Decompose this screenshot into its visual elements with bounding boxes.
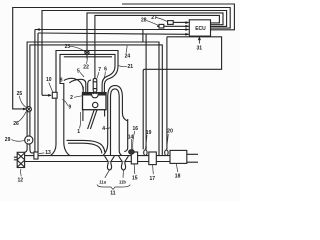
box 10 throttle actuator	[52, 92, 57, 98]
wire ECU bottom loop to sensor 19	[143, 37, 221, 150]
wire net 30 outermost loop to ECU	[122, 4, 234, 30]
cylinder head dark band right	[98, 93, 105, 96]
downpipe 11a flare edges	[105, 156, 115, 161]
arrowheads	[23, 21, 201, 110]
svg-text:31: 31	[197, 45, 203, 51]
arrow 31 stem	[198, 39, 200, 43]
downpipe 11b flare mask	[119, 156, 129, 161]
intake runner left outer wall	[69, 79, 86, 92]
air cleaner 12 body	[17, 152, 24, 167]
downpipe 11b flare edges	[119, 156, 129, 161]
leader 20	[167, 134, 169, 150]
wire/pipe B lower line to ECU	[38, 33, 189, 34]
svg-text:10: 10	[46, 77, 52, 83]
svg-text:8: 8	[60, 77, 63, 83]
svg-text:25: 25	[17, 91, 23, 97]
catalyst box 15	[131, 152, 137, 164]
pipe B left riser line	[34, 30, 36, 153]
pipe B right riser line	[37, 33, 39, 152]
wire loop W2 ECU to throttle box 10	[42, 11, 227, 96]
downpipe 11a stem	[108, 162, 111, 164]
wire arm into box 10	[42, 94, 51, 96]
intake manifold inner top line	[64, 56, 112, 58]
leader 25	[19, 96, 26, 108]
leader 1	[80, 112, 81, 129]
injector 7 body	[93, 79, 97, 95]
leader 28	[147, 21, 159, 26]
sensor square 28	[159, 24, 164, 28]
downpipe 11a label tick	[105, 170, 109, 177]
leader 6	[104, 72, 105, 79]
svg-text:2: 2	[70, 95, 73, 101]
leader 17	[152, 165, 155, 174]
svg-text:1: 1	[77, 129, 80, 135]
pipe A inner line	[30, 45, 162, 156]
pump 29 circle	[25, 136, 33, 144]
air cleaner element X upper	[17, 153, 24, 160]
sensor square 27	[168, 21, 174, 25]
leader 19	[145, 135, 147, 149]
leader 13 dash	[39, 152, 44, 155]
leader 4	[105, 127, 110, 130]
svg-text:21: 21	[128, 64, 134, 70]
downpipe 11b stem	[122, 162, 125, 164]
wire sensor 28 to ECU	[157, 25, 189, 27]
valve cup 5 in head	[92, 94, 99, 98]
air cleaner element X lower	[17, 160, 24, 167]
cylinder skirt walls	[83, 110, 105, 121]
wire sensor 27 to ECU	[173, 21, 189, 23]
purge valve 22/23 circle-X	[85, 50, 89, 54]
svg-text:ECU: ECU	[195, 26, 206, 32]
pipe B down-tee right (continues to exhaust port 19)	[145, 34, 147, 149]
svg-text:14: 14	[128, 135, 134, 141]
leader 22	[85, 55, 88, 64]
wire branch to sensor 20	[166, 37, 168, 149]
svg-text:12: 12	[18, 178, 24, 184]
arrow into box 10	[48, 94, 52, 97]
pipe A outer line (air pump to exhaust)	[25, 42, 159, 156]
svg-text:20: 20	[167, 129, 173, 135]
arrows into ECU left	[185, 21, 189, 24]
svg-text:29: 29	[5, 137, 11, 143]
intake duct 8 left wall + manifold 21 outer wall	[51, 51, 119, 156]
leader 10	[49, 83, 53, 92]
leader 23	[70, 46, 85, 51]
svg-text:16: 16	[133, 126, 139, 132]
svg-text:11b: 11b	[119, 180, 126, 185]
leader 18	[176, 164, 178, 172]
svg-text:9: 9	[68, 104, 71, 110]
connecting rod lines	[88, 110, 97, 129]
box 13	[34, 152, 38, 159]
leader 14	[130, 139, 132, 149]
intake runner cross arc	[64, 78, 83, 89]
ECU box 31	[189, 20, 210, 36]
leader 12	[20, 169, 23, 176]
svg-text:5: 5	[77, 69, 80, 75]
leader 16	[133, 131, 135, 150]
svg-text:7: 7	[98, 67, 101, 73]
svg-text:27: 27	[151, 15, 157, 21]
arrow left on pipe B upper line	[36, 28, 40, 31]
main duct bottom line	[25, 161, 187, 163]
leader 9	[62, 99, 68, 105]
pipe B down-tee left	[142, 30, 144, 43]
exhaust riser pipe 4 outer	[103, 86, 128, 156]
svg-text:24: 24	[125, 54, 131, 60]
injector 7 collar	[93, 82, 97, 89]
cylinder head thick top edge	[83, 92, 107, 94]
wire loop ECU to purge valve 22	[87, 13, 223, 59]
tailpipe lines	[187, 154, 198, 162]
exhaust riser pipe 4 inner	[111, 89, 123, 156]
cylinder block 1 outline	[83, 93, 107, 110]
injector seat dark right	[96, 92, 97, 94]
svg-text:13: 13	[45, 150, 51, 156]
crankcase sweep outer	[67, 140, 105, 152]
svg-text:19: 19	[146, 130, 152, 136]
intake runner left inner wall	[88, 80, 91, 93]
svg-text:15: 15	[132, 176, 138, 182]
leader 5	[80, 72, 84, 77]
leader 7	[97, 72, 99, 78]
svg-text:28: 28	[141, 17, 147, 23]
wire loop ECU to injector 7 (fuel line)	[95, 15, 219, 78]
leader 29	[11, 140, 24, 142]
svg-text:11: 11	[110, 191, 116, 197]
air cleaner inlet ticks	[14, 157, 17, 160]
leader 26	[18, 112, 27, 122]
exhaust runner outer right lower	[124, 119, 127, 152]
svg-text:4: 4	[102, 126, 105, 132]
downpipe 11b bulb	[121, 163, 125, 170]
leader 24	[126, 46, 127, 53]
wire/pipe B upper line to ECU	[35, 29, 189, 31]
leader lines	[11, 18, 177, 190]
svg-text:11a: 11a	[99, 180, 106, 185]
svg-text:26: 26	[13, 121, 19, 127]
leader 27	[156, 18, 167, 22]
downpipe 11a flare mask	[105, 156, 115, 161]
svg-text:18: 18	[175, 174, 181, 180]
arrow into valve 25	[23, 108, 27, 111]
leader 2	[74, 96, 82, 98]
brace 11	[97, 185, 130, 190]
injector seat dark left	[93, 92, 94, 94]
arrow 31 into ECU bottom	[198, 36, 201, 40]
downpipe 11b label tick	[122, 170, 124, 177]
svg-text:22: 22	[83, 65, 89, 71]
sensor 19 oval	[144, 150, 147, 156]
head left port stub	[82, 87, 84, 93]
leader 15	[133, 165, 136, 175]
cylinder inner circle 2	[93, 102, 98, 107]
svg-text:6: 6	[104, 67, 107, 73]
crankcase sweep inner	[68, 143, 102, 153]
muffler box 18	[170, 150, 187, 163]
svg-text:17: 17	[150, 176, 156, 182]
downpipe 11a bulb	[107, 163, 111, 170]
leader 21	[118, 66, 127, 67]
intake duct 8 right wall + manifold mid wall	[60, 54, 115, 155]
sensor 14 blob	[129, 150, 134, 154]
catalyst box 17	[149, 152, 157, 165]
main duct top line	[25, 155, 187, 157]
cylinder head dark band left	[83, 93, 92, 96]
wire loop W1 ECU to valve 25 actuator	[13, 8, 231, 109]
valve 25/26 circle-X	[26, 107, 31, 112]
svg-text:23: 23	[65, 44, 71, 50]
sensor 20 oval	[165, 150, 168, 156]
